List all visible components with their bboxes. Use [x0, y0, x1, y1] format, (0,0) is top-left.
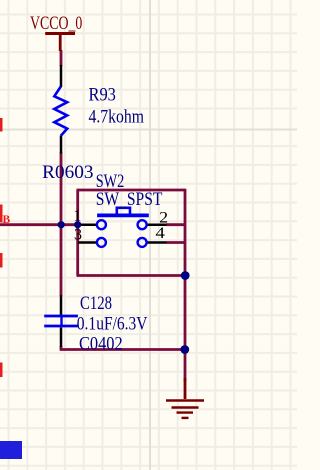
svg-text:1: 1 — [73, 208, 81, 225]
svg-text:C128: C128 — [80, 294, 112, 314]
svg-text:R0603: R0603 — [42, 163, 93, 183]
svg-text:VCCO_0: VCCO_0 — [30, 14, 82, 34]
svg-text:R93: R93 — [89, 85, 116, 105]
svg-text:0.1uF/6.3V: 0.1uF/6.3V — [77, 315, 148, 335]
svg-text:B: B — [3, 214, 11, 226]
svg-text:C0402: C0402 — [79, 335, 123, 355]
svg-text:4.7kohm: 4.7kohm — [89, 107, 145, 127]
svg-text:SW2: SW2 — [96, 172, 125, 192]
svg-text:4: 4 — [155, 225, 165, 242]
svg-text:2: 2 — [159, 210, 168, 227]
svg-text:3: 3 — [74, 227, 82, 244]
svg-text:SW_SPST: SW_SPST — [96, 190, 163, 210]
